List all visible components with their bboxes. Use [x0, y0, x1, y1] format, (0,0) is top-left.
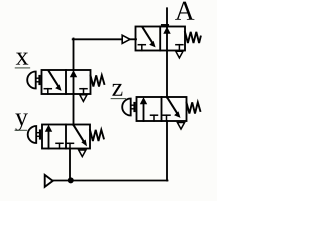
right box flow arrow 1 to 2: [166, 32, 168, 51]
left box blocked port T: [141, 45, 143, 51]
right box flow arrow 2 to 3: [167, 98, 177, 114]
valve V-z body (3/2 way, push button, spring return): [137, 97, 187, 121]
valve V-y return spring: [90, 130, 104, 141]
valve V-A body (3/2 way, pilot operated, spring return): [136, 27, 186, 51]
right box blocked exhaust T: [178, 45, 180, 51]
valve V-z push button: [122, 99, 134, 116]
compressed air source triangle: [45, 175, 53, 187]
left box flow arrow 1 to 2: [143, 102, 145, 121]
node A tick: [162, 24, 168, 26]
valve V-A exhaust triangle: [176, 51, 183, 58]
left box flow arrow 1 to 2: [48, 130, 50, 149]
wire valve x top to pilot elbow: [73, 39, 75, 71]
left box blocked exhaust T: [59, 143, 61, 148]
left box flow arrow 2 to 3: [49, 71, 59, 87]
right box flow arrow 2 to 3: [74, 125, 85, 142]
valve V-x return spring: [91, 75, 105, 86]
valve V-A pilot triangle: [122, 35, 136, 43]
valve V-y exhaust triangle: [79, 150, 86, 157]
node A label: [175, 2, 194, 20]
valve V-x push button: [27, 72, 39, 89]
wire valve x bottom to valve y top: [73, 94, 75, 125]
wire node A to valve A top: [166, 8, 168, 27]
right box flow arrow 1 to 2: [73, 75, 75, 94]
valve V-A return spring: [185, 32, 201, 43]
wire valve A to valve z: [166, 51, 168, 98]
valve V-x exhaust triangle: [80, 95, 87, 102]
right box blocked exhaust T: [83, 89, 85, 94]
wire valve y bottom to supply rail: [69, 149, 71, 181]
left box flow arrow 2 to 3: [143, 27, 153, 43]
wire valve z bottom to supply rail: [166, 121, 168, 181]
valve V-x body (3/2 way, push button, spring return): [42, 70, 91, 94]
valve V-A pilot line from valve x: [73, 38, 123, 40]
right box blocked port T: [69, 143, 71, 148]
label y: [15, 113, 28, 131]
supply rail wire: [53, 180, 168, 182]
valve V-z exhaust triangle: [177, 123, 184, 130]
valve V-z return spring: [187, 102, 201, 113]
valve V-y body (3/2 way, push button, spring return): [42, 125, 90, 149]
label z underline: [111, 98, 125, 100]
label z: [112, 84, 122, 96]
left box blocked port T: [47, 89, 49, 94]
valve V-y push button: [28, 126, 40, 143]
right box blocked port T: [166, 115, 168, 121]
junction dot supply rail to valve y: [68, 177, 74, 183]
label x: [16, 53, 28, 65]
label y underline: [15, 129, 27, 131]
label x underline: [15, 67, 29, 69]
left box blocked exhaust T: [153, 115, 155, 121]
